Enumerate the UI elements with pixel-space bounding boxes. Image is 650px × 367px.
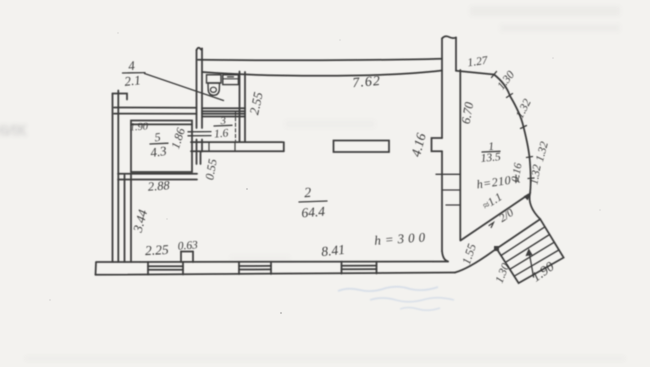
room 5 box xyxy=(131,121,192,173)
door jambs (0.63 opening) in bottom wall xyxy=(180,252,182,263)
fraction bar of 1/13.5 xyxy=(482,150,500,153)
break symbol xyxy=(197,48,203,50)
fraction bar of 4/2.1 xyxy=(123,72,146,74)
wall: bottom wall of left block (double line) xyxy=(118,173,197,175)
window 2 in bottom wall xyxy=(238,262,240,274)
arrowhead at arc junction xyxy=(525,193,531,199)
pilaster top-right with break xyxy=(441,39,443,139)
arc tick 5 xyxy=(528,177,534,180)
wall tick on right wall (y=205) xyxy=(446,204,460,206)
wall: bottom exterior wall, inner line xyxy=(97,261,448,264)
arc tick 1 xyxy=(492,72,497,78)
svg-text:8.41: 8.41 xyxy=(321,242,346,259)
wall: top exterior wall, outer line xyxy=(198,59,442,60)
partition bar 2 (wall stub, outlined) xyxy=(334,141,390,153)
sink xyxy=(223,75,239,85)
svg-text:2.25: 2.25 xyxy=(145,242,170,258)
arc tick 2 xyxy=(507,94,513,98)
bottom wall left end cap xyxy=(95,262,98,275)
wall cap top-left xyxy=(113,94,128,100)
leader line for label 4/2.1 xyxy=(145,74,224,101)
wall tick on right wall (y=174) xyxy=(436,173,460,175)
toilet tank xyxy=(207,75,222,83)
bottom-right inner corner curve xyxy=(442,251,448,262)
wall: top inner line continues right of pilaster to arc start xyxy=(456,71,494,75)
arc jog down to stairs xyxy=(530,193,541,219)
wall: right wall outer line xyxy=(459,70,461,240)
wall: inner left wall of hall (double line) xyxy=(124,175,126,262)
dashed riser line in room 3 xyxy=(235,112,237,141)
svg-text:4.3: 4.3 xyxy=(149,143,168,160)
svg-text:2: 2 xyxy=(304,186,312,201)
wall tick on right wall (y=190) xyxy=(442,189,460,191)
wall: top exterior wall, inner line xyxy=(202,71,442,76)
scan speckles xyxy=(49,32,601,314)
svg-text:13.5: 13.5 xyxy=(480,151,501,165)
arc tick 4 xyxy=(527,157,533,158)
wall: outer left wall (double line) xyxy=(112,94,114,263)
wall: WC / room5 shared wall with break symbol at top xyxy=(196,50,198,128)
svg-text:64.4: 64.4 xyxy=(301,204,326,221)
ramp small mid arrow xyxy=(489,223,494,228)
toilet bowl xyxy=(208,83,220,95)
svg-text:НИК: НИК xyxy=(0,121,27,140)
window 3 in bottom wall xyxy=(341,262,343,274)
fraction bar of 5/4.3 xyxy=(150,142,168,145)
fraction bar of 3/1.6 xyxy=(214,124,232,127)
window 1 in bottom wall xyxy=(147,262,149,275)
wall: right wall inner line lower part xyxy=(441,151,443,251)
wall: bottom exterior wall, outer line xyxy=(96,273,456,275)
WC right wall (double) xyxy=(239,72,241,143)
wall segment below partition bar (to 0.55 door) xyxy=(200,152,202,165)
partition bar 1 (thick wall stub) xyxy=(191,141,283,143)
wall: top wall of left block (double line) xyxy=(114,107,197,109)
door lines between room 5 and room 3 xyxy=(188,131,211,133)
svg-text:0.63: 0.63 xyxy=(177,239,198,252)
toilet bowl inner oval xyxy=(210,87,216,92)
WC bottom wall lines xyxy=(202,107,245,109)
fraction bar of 2/64.4 xyxy=(299,201,327,202)
svg-text:2.1: 2.1 xyxy=(124,72,142,89)
svg-text:1.90: 1.90 xyxy=(129,121,149,133)
curved wall arc of room 1 xyxy=(494,75,531,194)
stairs outline xyxy=(497,219,564,283)
stairs direction arrow xyxy=(529,251,534,278)
faint blue handwriting bleed-through xyxy=(338,287,454,311)
svg-text:1.6: 1.6 xyxy=(214,127,230,140)
room 5 box top second line xyxy=(131,123,192,125)
stairs corner dot xyxy=(494,246,499,251)
stair steps xyxy=(501,227,545,256)
room 3 top wall lines xyxy=(202,113,245,115)
bottom-right outer curve up to stairs xyxy=(455,249,497,273)
niche notch on right wall xyxy=(432,138,443,151)
svg-text:2.88: 2.88 xyxy=(147,178,171,194)
ramp wall line (entry) xyxy=(461,195,529,241)
svg-text:7.62: 7.62 xyxy=(352,74,382,91)
arc tick 3 xyxy=(521,126,527,129)
